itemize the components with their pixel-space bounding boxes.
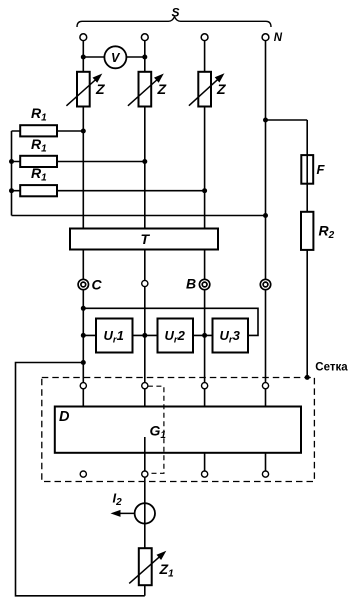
svg-text:Z: Z [216, 81, 226, 97]
svg-text:N: N [274, 32, 283, 44]
svg-text:B: B [186, 276, 196, 292]
svg-text:F: F [317, 162, 326, 177]
svg-text:C: C [92, 276, 103, 292]
svg-text:Сетка: Сетка [315, 362, 348, 374]
svg-text:D: D [59, 409, 70, 425]
svg-text:Z: Z [157, 81, 167, 97]
svg-text:Z: Z [95, 81, 105, 97]
svg-text:S: S [172, 5, 180, 19]
svg-text:T: T [141, 231, 151, 247]
